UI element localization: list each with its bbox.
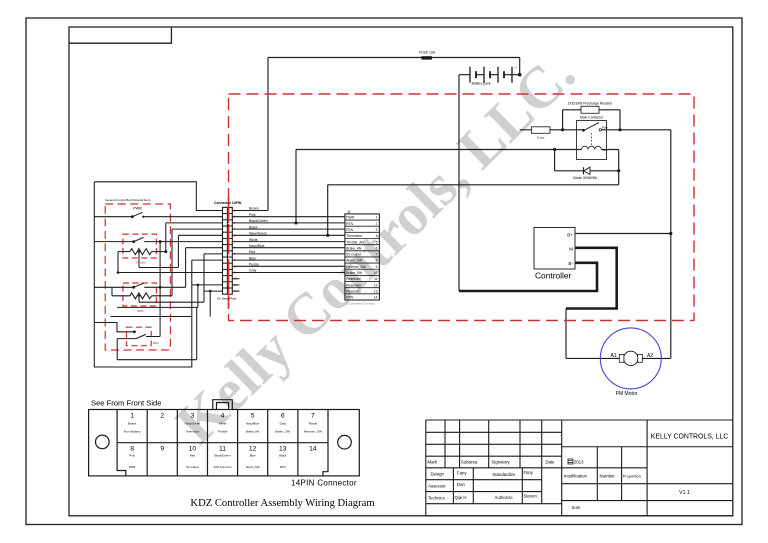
svg-text:Alarm_SW: Alarm_SW	[346, 259, 363, 263]
svg-text:PWR: PWR	[133, 206, 142, 210]
svg-text:10: 10	[374, 271, 378, 275]
svg-text:Reverse _SW: Reverse _SW	[304, 429, 322, 433]
svg-text:M: M	[569, 246, 573, 251]
svg-text:Brake_SW: Brake_SW	[346, 271, 363, 275]
svg-text:9: 9	[376, 265, 378, 269]
svg-text:Brake _SW: Brake _SW	[275, 429, 290, 433]
svg-text:Reserved: Reserved	[346, 283, 360, 287]
svg-text:Design: Design	[431, 472, 445, 477]
svg-text:Brake_AN: Brake_AN	[246, 429, 259, 433]
svg-text:3: 3	[376, 228, 378, 232]
svg-text:Navy/Green: Navy/Green	[249, 232, 267, 236]
svg-text:B-: B-	[568, 261, 573, 266]
svg-text:Fany: Fany	[457, 471, 467, 476]
svg-text:Black: Black	[279, 454, 287, 458]
svg-text:10: 10	[189, 446, 197, 453]
svg-text:Fuse: Fuse	[537, 136, 545, 140]
svg-text:Signatory: Signatory	[492, 460, 511, 465]
svg-text:Black: Black	[249, 225, 258, 229]
svg-text:Blue: Blue	[250, 454, 256, 458]
svg-text:Gray: Gray	[249, 269, 257, 273]
svg-text:PWR: PWR	[346, 216, 354, 220]
svg-text:A2: A2	[647, 353, 653, 359]
svg-text:5V output: 5V output	[186, 465, 199, 469]
svg-text:Steven: Steven	[524, 494, 538, 499]
svg-text:B+: B+	[567, 232, 573, 237]
svg-text:Coil: Coil	[603, 148, 608, 152]
svg-text:On Base/Plate: On Base/Plate	[217, 297, 237, 301]
svg-text:REV: REV	[153, 341, 159, 345]
svg-text:8: 8	[130, 446, 134, 453]
svg-text:1KΩ/10W Precharge Resistor: 1KΩ/10W Precharge Resistor	[568, 101, 613, 105]
svg-text:5V Output: 5V Output	[346, 253, 361, 257]
svg-text:RTN: RTN	[346, 296, 353, 300]
svg-text:Brown: Brown	[249, 207, 259, 211]
svg-text:Purple: Purple	[309, 422, 318, 426]
svg-text:5: 5	[251, 413, 255, 420]
svg-text:12: 12	[249, 446, 257, 453]
svg-text:Main Contactor: Main Contactor	[580, 115, 604, 119]
svg-text:14: 14	[309, 446, 317, 453]
svg-text:J2: J2	[347, 210, 351, 214]
svg-text:14PIN Connector: 14PIN Connector	[291, 479, 357, 488]
svg-text:Red: Red	[249, 250, 255, 254]
svg-text:Navy/Blue: Navy/Blue	[246, 422, 260, 426]
svg-text:Sum: Sum	[572, 505, 581, 510]
svg-text:2: 2	[376, 222, 378, 226]
svg-text:Fany: Fany	[524, 470, 534, 475]
svg-text:Throttle_AN: Throttle_AN	[346, 240, 364, 244]
svg-text:Diode 300W/5A: Diode 300W/5A	[573, 176, 597, 180]
svg-text:4: 4	[221, 413, 225, 420]
svg-text:Blue: Blue	[249, 256, 256, 260]
svg-text:9: 9	[160, 446, 164, 453]
svg-text:Standardize: Standardize	[493, 472, 517, 477]
svg-text:Assessor: Assessor	[428, 484, 446, 489]
svg-text:Technics: Technics	[428, 496, 445, 501]
svg-text:2: 2	[160, 413, 164, 420]
svg-text:Mark: Mark	[428, 460, 438, 465]
svg-text:V1.1: V1.1	[679, 490, 690, 496]
svg-text:Authorize: Authorize	[495, 495, 514, 500]
svg-text:Throttle: Throttle	[218, 429, 228, 433]
svg-text:Black/Green: Black/Green	[249, 219, 268, 223]
svg-text:RTN: RTN	[346, 228, 353, 232]
svg-text:modification: modification	[564, 473, 588, 478]
svg-text:2013: 2013	[574, 460, 584, 465]
svg-text:A/W Common: A/W Common	[214, 465, 232, 469]
svg-text:11: 11	[374, 277, 378, 281]
svg-text:Date: Date	[546, 460, 556, 465]
svg-text:Dan: Dan	[457, 482, 465, 487]
svg-text:Reserved: Reserved	[346, 277, 360, 281]
svg-text:Subarea: Subarea	[461, 460, 478, 465]
svg-text:Black/Green: Black/Green	[215, 454, 231, 458]
svg-text:3: 3	[191, 413, 195, 420]
svg-text:4: 4	[376, 234, 378, 238]
svg-text:6: 6	[281, 413, 285, 420]
svg-text:11: 11	[219, 446, 226, 453]
svg-text:Reverse_SW: Reverse_SW	[346, 265, 366, 269]
svg-text:FUSE 10A: FUSE 10A	[419, 51, 436, 55]
svg-text:From Battery: From Battery	[124, 429, 141, 433]
svg-text:6: 6	[376, 246, 378, 250]
svg-text:Thermistor: Thermistor	[185, 429, 199, 433]
svg-text:Qije H: Qije H	[455, 495, 467, 500]
svg-text:Controller: Controller	[535, 271, 572, 281]
svg-text:1: 1	[130, 413, 134, 420]
svg-text:PWR: PWR	[129, 465, 136, 469]
svg-text:Red: Red	[190, 454, 196, 458]
svg-text:+: +	[515, 66, 517, 70]
svg-text:8: 8	[376, 259, 378, 263]
svg-text:White: White	[249, 238, 258, 242]
svg-text:A1: A1	[610, 353, 616, 359]
svg-text:Throttle: Throttle	[135, 261, 146, 265]
svg-text:KELLY CONTROLS, LLC: KELLY CONTROLS, LLC	[651, 433, 729, 440]
svg-text:Navy/Green: Navy/Green	[185, 422, 201, 426]
svg-text:PM Motor: PM Motor	[616, 391, 638, 397]
svg-text:Brown: Brown	[128, 422, 137, 426]
svg-text:Reserved: Reserved	[346, 290, 360, 294]
svg-text:5: 5	[376, 240, 378, 244]
svg-text:Battery pack: Battery pack	[472, 82, 491, 86]
svg-text:1: 1	[376, 216, 378, 220]
svg-text:See From Front Side: See From Front Side	[91, 399, 161, 408]
svg-text:Number: Number	[600, 473, 616, 478]
svg-text:Navy/Blue: Navy/Blue	[249, 244, 265, 248]
svg-text:12: 12	[374, 283, 378, 287]
svg-text:Gray: Gray	[280, 422, 287, 426]
svg-text:RTN: RTN	[280, 465, 286, 469]
svg-text:Proportion: Proportion	[623, 474, 641, 479]
svg-text:7: 7	[376, 253, 378, 257]
svg-text:Connector 14PIN: Connector 14PIN	[214, 201, 242, 205]
svg-text:Brake_AN: Brake_AN	[346, 246, 362, 250]
svg-text:Thermistor: Thermistor	[346, 234, 363, 238]
svg-text:13: 13	[279, 446, 287, 453]
svg-text:RTN: RTN	[346, 222, 353, 226]
svg-text:BPR: BPR	[137, 309, 144, 313]
svg-text:KDZ Controller Assembly Wirin: KDZ Controller Assembly Wiring Diagram	[190, 498, 375, 509]
svg-text:Pink: Pink	[129, 454, 135, 458]
svg-text:J2 Controller Connector: J2 Controller Connector	[346, 302, 376, 306]
svg-text:Alarm_SW: Alarm_SW	[246, 465, 260, 469]
svg-text:13: 13	[374, 290, 378, 294]
svg-text:General Control Box(Optional I: General Control Box(Optional Item)	[105, 198, 150, 202]
svg-text:White: White	[219, 422, 227, 426]
svg-text:14: 14	[374, 296, 378, 300]
svg-text:Purple: Purple	[249, 263, 259, 267]
svg-text:7: 7	[311, 413, 315, 420]
svg-text:Pole: Pole	[602, 125, 608, 129]
svg-text:Pink: Pink	[249, 213, 256, 217]
